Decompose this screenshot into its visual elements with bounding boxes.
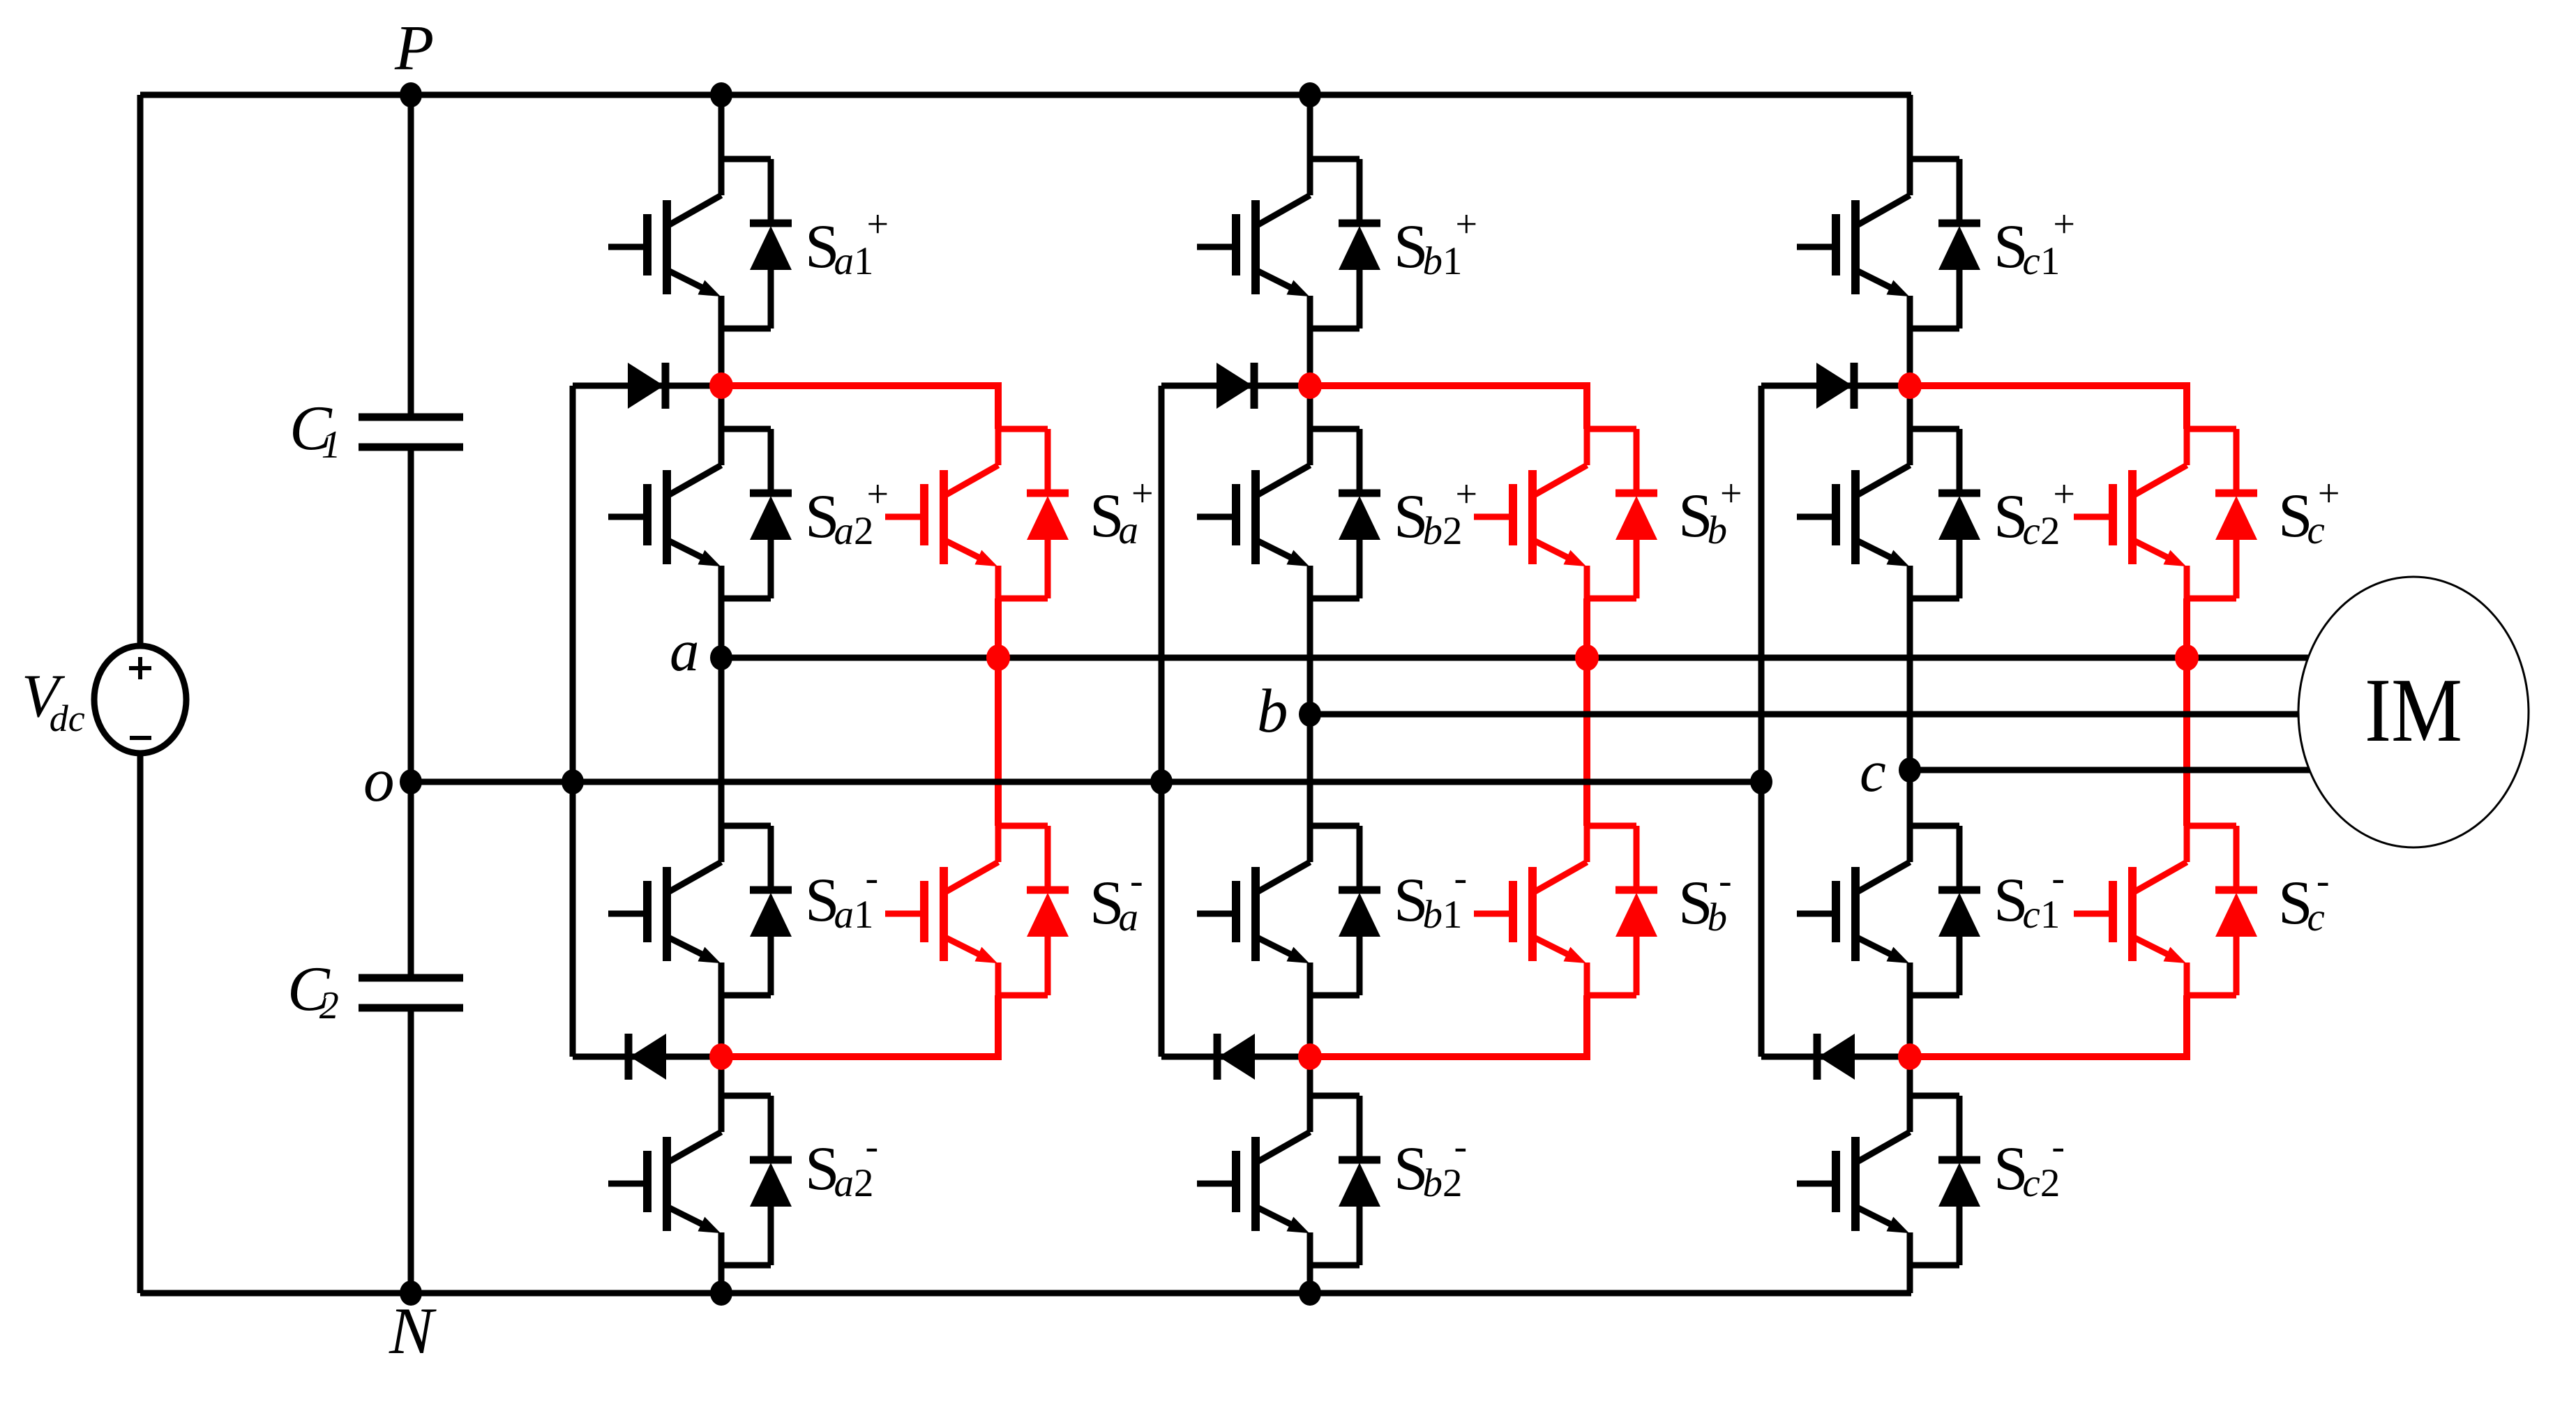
- wire leg a bottom clamp to Sa2-: [718, 1057, 725, 1096]
- wire left source branch lower: [137, 753, 144, 1293]
- diode clamp bottom leg a: [573, 1034, 721, 1080]
- diode clamp top leg a: [573, 363, 721, 409]
- wire bus C1 to o: [408, 447, 414, 782]
- node c: [1899, 757, 1921, 783]
- wire clamp vertical leg c: [1758, 386, 1765, 1057]
- wire leg c Sc1- to bottom clamp node: [1907, 995, 1913, 1057]
- svg-text:Sa-: Sa-: [1090, 859, 1143, 939]
- wire leg b Sb1- to bottom clamp node: [1307, 995, 1313, 1057]
- node bottom clamp leg b: [1298, 1043, 1322, 1070]
- node bottom clamp leg a: [709, 1043, 733, 1070]
- wire leg a Sa1+ to top clamp node: [718, 329, 725, 386]
- wire bus o to C2: [408, 782, 414, 978]
- wire leg c Sc2+ to phase node: [1907, 598, 1913, 770]
- wire red phase line to Sb- (leg b): [1583, 658, 1590, 826]
- wire leg c Sc2- to N rail: [1907, 1265, 1913, 1293]
- motor IM: [2298, 577, 2529, 847]
- wire phase c line: [1910, 767, 2310, 773]
- node o junction: [400, 769, 422, 794]
- wire leg b bottom clamp to Sb2-: [1307, 1057, 1313, 1096]
- wire leg c top clamp to Sc2+: [1907, 386, 1913, 429]
- source Vdc: [94, 646, 186, 753]
- svg-text:o: o: [363, 746, 395, 815]
- transistor Sc1- (IGBT with diode): [1797, 826, 1980, 995]
- wire red Sc- to bottom clamp: [1910, 995, 2187, 1057]
- node bottom clamp leg c: [1898, 1043, 1922, 1070]
- svg-text:c: c: [1860, 739, 1886, 804]
- capacitor C1: [359, 417, 463, 447]
- svg-text:P: P: [394, 12, 434, 83]
- transistor Sb- (red IGBT with diode): [1474, 826, 1657, 995]
- node red tap leg b on phase line: [1575, 644, 1599, 671]
- node clamp vertical leg b to o rail: [1150, 769, 1173, 794]
- wire N rail: [140, 1290, 1911, 1297]
- node top clamp leg c: [1898, 372, 1922, 399]
- capacitor C2: [359, 978, 463, 1008]
- wire leg b Sb2- to N rail: [1307, 1265, 1313, 1293]
- node leg a P junction: [710, 82, 732, 107]
- transistor Sa+ (red IGBT with diode): [885, 429, 1069, 598]
- wire leg b P to Sb1+: [1307, 95, 1313, 159]
- wire red top clamp to Sb+ (leg b): [1310, 386, 1587, 429]
- wire red Sb+ to phase-a line: [1583, 598, 1590, 658]
- wire leg b Sb2+ to phase node: [1307, 598, 1313, 714]
- svg-text:Sc-: Sc-: [2278, 859, 2329, 939]
- transistor Sa2+ (IGBT with diode): [608, 429, 792, 598]
- wire leg c phase node to Sc1-: [1907, 770, 1913, 826]
- node leg a N junction: [710, 1281, 732, 1306]
- wire leg b Sb1+ to top clamp node: [1307, 329, 1313, 386]
- wire red Sc+ to phase-a line: [2183, 598, 2190, 658]
- node leg b N junction: [1299, 1281, 1321, 1306]
- svg-text:Sb-: Sb-: [1678, 859, 1732, 939]
- node a: [710, 645, 732, 670]
- transistor Sc2- (IGBT with diode): [1797, 1096, 1980, 1265]
- wire red Sa- to bottom clamp: [721, 995, 998, 1057]
- transistor Sb2- (IGBT with diode): [1197, 1096, 1380, 1265]
- wire phase a line: [721, 655, 2308, 661]
- diode clamp top leg b: [1161, 363, 1310, 409]
- node b: [1299, 702, 1321, 727]
- diode clamp bottom leg b: [1161, 1034, 1310, 1080]
- svg-text:IM: IM: [2365, 660, 2462, 761]
- node leg b P junction: [1299, 82, 1321, 107]
- transistor Sc2+ (IGBT with diode): [1797, 429, 1980, 598]
- node red tap leg a on phase line: [986, 644, 1010, 671]
- wire leg b phase node to Sb1-: [1307, 714, 1313, 826]
- transistor Sb+ (red IGBT with diode): [1474, 429, 1657, 598]
- wire P rail: [140, 92, 1911, 98]
- wire red Sb- to bottom clamp: [1310, 995, 1587, 1057]
- wire phase b line: [1310, 711, 2298, 718]
- wire red top clamp to Sc+ (leg c): [1910, 386, 2187, 429]
- node top clamp leg b: [1298, 372, 1322, 399]
- transistor Sa- (red IGBT with diode): [885, 826, 1069, 995]
- wire leg a Sa2- to N rail: [718, 1265, 725, 1293]
- wire leg b top clamp to Sb2+: [1307, 386, 1313, 429]
- wire red phase line to Sc- (leg c): [2183, 658, 2190, 826]
- node P junction: [400, 82, 422, 107]
- wire bus P to C1: [408, 95, 414, 417]
- wire leg a P to Sa1+: [718, 95, 725, 159]
- svg-text:a: a: [670, 618, 700, 684]
- wire red top clamp to Sa+ (leg a): [721, 386, 998, 429]
- wire left source branch upper: [137, 95, 144, 646]
- transistor Sb2+ (IGBT with diode): [1197, 429, 1380, 598]
- diode clamp top leg c: [1761, 363, 1910, 409]
- transistor Sb1- (IGBT with diode): [1197, 826, 1380, 995]
- diode clamp bottom leg c: [1761, 1034, 1910, 1080]
- transistor Sc+ (red IGBT with diode): [2074, 429, 2257, 598]
- wire leg a phase node to Sa1-: [718, 658, 725, 826]
- transistor Sa1- (IGBT with diode): [608, 826, 792, 995]
- transistor Sc- (red IGBT with diode): [2074, 826, 2257, 995]
- transistor Sa2- (IGBT with diode): [608, 1096, 792, 1265]
- wire leg c P to Sc1+: [1907, 95, 1913, 159]
- svg-text:b: b: [1257, 677, 1288, 746]
- node clamp vertical leg c to o rail: [1750, 769, 1772, 794]
- node N junction: [400, 1281, 422, 1306]
- wire bus C2 to N: [408, 1008, 414, 1293]
- wire red phase line to Sa- (leg a): [995, 658, 1002, 826]
- transistor Sc1+ (IGBT with diode): [1797, 159, 1980, 329]
- wire leg c bottom clamp to Sc2-: [1907, 1057, 1913, 1096]
- wire leg a top clamp to Sa2+: [718, 386, 725, 429]
- wire leg a Sa1- to bottom clamp node: [718, 995, 725, 1057]
- transistor Sb1+ (IGBT with diode): [1197, 159, 1380, 329]
- wire leg a Sa2+ to phase node: [718, 598, 725, 658]
- node top clamp leg a: [709, 372, 733, 399]
- wire red Sa+ to phase-a line: [995, 598, 1002, 658]
- node clamp vertical leg a to o rail: [562, 769, 584, 794]
- transistor Sa1+ (IGBT with diode): [608, 159, 792, 329]
- wire clamp vertical leg b: [1159, 386, 1165, 1057]
- wire o rail: [411, 779, 1761, 785]
- node red tap leg c on phase line: [2175, 644, 2199, 671]
- wire clamp vertical leg a: [570, 386, 576, 1057]
- wire leg c Sc1+ to top clamp node: [1907, 329, 1913, 386]
